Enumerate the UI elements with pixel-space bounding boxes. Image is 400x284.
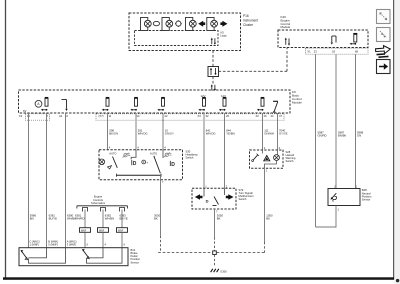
svg-text:Module: Module bbox=[292, 100, 302, 104]
svg-text:BK/GN: BK/GN bbox=[109, 132, 118, 136]
BCM internal switch bbox=[273, 101, 278, 112]
wire BCM to headlamp switch 3 bbox=[162, 113, 164, 150]
inline connector MNF 1 bbox=[80, 228, 91, 233]
wire connector 2 to BPPS bbox=[102, 232, 104, 247]
indicator lamp 3 bbox=[186, 18, 197, 31]
svg-text:Sensor: Sensor bbox=[362, 198, 371, 202]
BCM pin 22 bbox=[157, 98, 165, 111]
wire BCM to turn signal switch 1 bbox=[203, 113, 205, 188]
fog lamp icon bbox=[153, 21, 159, 25]
svg-text:GY/YE: GY/YE bbox=[279, 132, 288, 136]
BCM pin 32 bbox=[198, 98, 206, 111]
wire BCM to headlamp switch 2 bbox=[135, 113, 137, 150]
svg-text:WH/OG: WH/OG bbox=[138, 132, 148, 136]
cluster I/O logic inner box bbox=[135, 31, 219, 46]
BCM serial data symbol bbox=[211, 84, 216, 91]
right page border bbox=[393, 0, 395, 280]
svg-text:Switch: Switch bbox=[186, 156, 194, 160]
svg-text:GN/GY: GN/GY bbox=[165, 132, 174, 136]
wire BCM to hazard switch 2 bbox=[277, 113, 279, 150]
inline connector MNF 2 bbox=[98, 228, 109, 233]
wire label 598 BK/GN bbox=[109, 129, 118, 136]
serial data wire cluster to connector bbox=[212, 51, 214, 67]
ground bus wire bbox=[158, 252, 265, 254]
wire label 5987 BN/BK bbox=[338, 131, 347, 138]
svg-text:GN/RD: GN/RD bbox=[318, 134, 327, 138]
ECM pin symbol bbox=[350, 34, 358, 45]
instrument cluster P16 box bbox=[129, 13, 241, 51]
BPPS potentiometer 1 bbox=[21, 250, 28, 260]
headlamp switch lever 2 bbox=[154, 156, 161, 173]
wire bracket 3 to connector bbox=[121, 210, 123, 228]
label Engine Controls Schematics bbox=[91, 195, 106, 205]
label S79 Turn Signal Multifunction Switch bbox=[239, 188, 255, 201]
BCM pin 7 bbox=[41, 98, 49, 111]
wire label 6382 WH/BN bbox=[105, 214, 114, 221]
BCM pin 26 bbox=[219, 98, 227, 111]
svg-text:18: 18 bbox=[332, 50, 335, 54]
BCM connector dotted outline right bbox=[96, 114, 284, 120]
bracket hook 1 bbox=[83, 208, 88, 212]
wire label 5986 BN bbox=[30, 214, 37, 221]
svg-text:YE/BN: YE/BN bbox=[226, 132, 234, 136]
left page border bbox=[5, 0, 7, 278]
wire label 844 YE/BN bbox=[226, 129, 234, 136]
right margin strip bbox=[394, 0, 400, 284]
right turn arrow icon bbox=[220, 21, 227, 27]
wire label 6380 WH/BK bbox=[67, 214, 76, 221]
svg-text:Logic: Logic bbox=[220, 33, 227, 37]
svg-text:16: 16 bbox=[264, 114, 267, 118]
svg-text:(X7): (X7) bbox=[99, 114, 104, 118]
ECM connector dotted outline bbox=[306, 48, 369, 54]
svg-text:68: 68 bbox=[355, 50, 358, 54]
svg-text:BN/BK: BN/BK bbox=[338, 134, 347, 138]
svg-text:X1: X1 bbox=[307, 50, 311, 54]
svg-text:P16: P16 bbox=[243, 14, 249, 18]
wire label 6381 BU/YE bbox=[49, 214, 58, 221]
wire BCM to BPPS 2 bbox=[46, 113, 48, 248]
ambient light sensor icon bbox=[142, 160, 148, 164]
svg-text:1 (MNF): 1 (MNF) bbox=[30, 243, 40, 247]
svg-text:BK: BK bbox=[266, 217, 270, 221]
svg-text:Switch: Switch bbox=[239, 197, 247, 201]
serial data wire connector to ECM bbox=[219, 48, 288, 72]
headlamp switch pin numbers top bbox=[109, 146, 167, 150]
left turn arrow in switch bbox=[195, 194, 203, 200]
wire NPS return loop bbox=[316, 206, 337, 228]
toolbar button zoom-window bbox=[377, 28, 391, 42]
BPPS internal wiring 1 bbox=[29, 248, 66, 264]
switch common bar bbox=[117, 174, 162, 177]
svg-text:X2: X2 bbox=[256, 114, 260, 118]
wire label 5987 GN/RD bbox=[318, 131, 327, 138]
svg-text:BK: BK bbox=[154, 217, 158, 221]
hazard lamp symbol bbox=[274, 155, 280, 161]
svg-text:BK/YE: BK/YE bbox=[120, 217, 128, 221]
wire ECM pin 68 bbox=[355, 54, 357, 188]
label I/O Logic bbox=[220, 30, 227, 37]
wire label 7040 GY/YE bbox=[279, 129, 288, 136]
svg-text:Sensor: Sensor bbox=[131, 260, 140, 264]
left turn arrow icon bbox=[198, 21, 205, 27]
svg-text:5 (MNF): 5 (MNF) bbox=[48, 243, 58, 247]
bracket hook 2 bbox=[101, 208, 106, 212]
svg-text:WH/BN: WH/BN bbox=[105, 217, 114, 221]
svg-text:GN/WH: GN/WH bbox=[264, 132, 274, 136]
right turn arrow in switch bbox=[226, 194, 234, 200]
brake pedal position sensor B14 box bbox=[19, 248, 128, 266]
label S30 Headlamp Switch bbox=[186, 150, 199, 160]
bracket hook 3 bbox=[120, 208, 125, 212]
ground G306 bbox=[211, 269, 228, 274]
toolbar button zoom-extents bbox=[377, 10, 391, 24]
svg-text:BN: BN bbox=[30, 217, 34, 221]
inline connector MNF 3 bbox=[117, 228, 128, 233]
hazard internal wires bbox=[263, 150, 278, 168]
svg-text:Instrument: Instrument bbox=[243, 19, 258, 23]
NPS sensor symbol bbox=[331, 193, 337, 202]
hazard warning switch S28 box bbox=[250, 150, 284, 168]
hazard triangle symbol bbox=[263, 155, 271, 162]
turn signal stalk contact bbox=[204, 188, 219, 205]
wire bracket 2 to connector bbox=[102, 210, 104, 228]
svg-text:D: D bbox=[206, 198, 209, 203]
wire turn signal switch to splice bbox=[214, 209, 216, 251]
svg-text:MNF: MNF bbox=[81, 229, 87, 232]
park lamp symbol bbox=[99, 159, 105, 165]
svg-text:D: D bbox=[171, 162, 175, 168]
headlamp switch lever 1 bbox=[108, 157, 118, 170]
BCM pin 14 bbox=[130, 98, 138, 111]
lamps-off icon 2 bbox=[164, 152, 172, 157]
toolbar button next-page bbox=[377, 60, 391, 74]
wire hazard switch to ground bus bbox=[264, 168, 266, 252]
neutral position sensor B48 box bbox=[328, 189, 360, 206]
svg-text:AUTO: AUTO bbox=[109, 151, 116, 155]
wire BCM to BPPS 1 bbox=[28, 113, 30, 248]
svg-text:23: 23 bbox=[314, 50, 317, 54]
svg-text:WH/OG: WH/OG bbox=[206, 132, 216, 136]
svg-text:3 (MNF): 3 (MNF) bbox=[67, 243, 77, 247]
svg-text:44: 44 bbox=[271, 114, 274, 118]
wire label 1050 BK bbox=[266, 214, 273, 221]
wire connector 1 to BPPS bbox=[84, 232, 86, 247]
wire connector 3 to BPPS bbox=[121, 232, 123, 247]
wire BCM to turn signal switch 2 bbox=[224, 113, 226, 188]
wire splice to ground bbox=[214, 255, 216, 268]
wire label 6383 BK/YE bbox=[120, 214, 128, 221]
BCM pin 16 bbox=[257, 98, 265, 111]
label B48 Neutral Position Sensor bbox=[362, 188, 372, 201]
ECM pin numbers bbox=[307, 50, 358, 54]
turn signal multifunction switch S79 box bbox=[192, 188, 236, 209]
wire label 6381 WH/RD bbox=[75, 214, 84, 221]
svg-text:AUTO: AUTO bbox=[150, 151, 157, 155]
bottom page border bbox=[3, 277, 394, 280]
low beam icon 1 bbox=[132, 160, 137, 167]
BCM K9 box bbox=[19, 90, 291, 113]
wire jog to low beam icon bbox=[131, 150, 136, 160]
BCM output pin A4 bbox=[62, 100, 68, 112]
wire ECM pin 18 bbox=[335, 54, 337, 188]
svg-text:Switch: Switch bbox=[286, 159, 294, 163]
BPPS internal wiring 2 bbox=[87, 248, 123, 264]
wire BCM to BPPS 3 bbox=[65, 113, 67, 248]
BCM pin 11 bbox=[102, 98, 110, 111]
indicator lamp 4 bbox=[207, 18, 218, 31]
wire label 5988 GN bbox=[357, 131, 364, 138]
svg-text:WH/RD: WH/RD bbox=[75, 217, 84, 221]
ECM serial data symbol bbox=[285, 38, 290, 46]
wire stub to low beam icon 2 bbox=[162, 150, 164, 158]
svg-text:A4: A4 bbox=[59, 114, 63, 118]
svg-text:22: 22 bbox=[165, 114, 168, 118]
svg-text:Cluster: Cluster bbox=[243, 23, 254, 27]
splice S208 bbox=[213, 251, 217, 255]
svg-text:BU/YE: BU/YE bbox=[49, 217, 58, 221]
wire BCM to hazard switch 1 bbox=[262, 113, 264, 150]
wire ECM pin 23 bbox=[315, 54, 317, 227]
off-page reference bracket bbox=[77, 206, 128, 209]
wire headlamp switch to ground bus bbox=[160, 175, 162, 252]
label P16 Instrument Cluster bbox=[243, 14, 258, 27]
lamps-off icon 1 bbox=[123, 153, 131, 158]
BPPS pin labels bbox=[30, 239, 126, 246]
low beam icon 2 bbox=[170, 161, 175, 168]
svg-text:14: 14 bbox=[137, 114, 140, 118]
headlamp switch S30 box bbox=[99, 150, 183, 180]
serial data wire connector to BCM bbox=[212, 77, 214, 86]
BCM connector dotted outline left bbox=[26, 114, 50, 120]
svg-text:47: 47 bbox=[279, 114, 282, 118]
hazard switch lever bbox=[252, 154, 259, 162]
corner mark bbox=[396, 279, 399, 282]
BCM pin numbers bbox=[19, 114, 283, 118]
wire label 3050 BK left bbox=[154, 214, 161, 221]
svg-text:32: 32 bbox=[206, 114, 209, 118]
svg-text:D: D bbox=[133, 161, 137, 167]
wire label 591 WH/OG bbox=[138, 129, 148, 136]
svg-text:MNF: MNF bbox=[118, 229, 124, 232]
ECM K20 box bbox=[278, 30, 368, 48]
label B14 Brake Pedal Position Sensor bbox=[131, 248, 141, 264]
wire stub turn signal 2 bbox=[224, 188, 226, 195]
wire label 841 WH/OG bbox=[206, 129, 216, 136]
svg-text:GN: GN bbox=[357, 134, 361, 138]
gear indicator icon bbox=[175, 20, 182, 27]
wire label 3050 BK right bbox=[217, 214, 224, 221]
ECM output driver symbol bbox=[331, 36, 336, 45]
label S28 Hazard Warning Switch bbox=[286, 150, 296, 163]
inline connector X85 bbox=[208, 67, 219, 77]
cluster serial data symbol bbox=[211, 38, 216, 45]
svg-text:Schematics: Schematics bbox=[91, 201, 106, 205]
svg-text:BK: BK bbox=[217, 217, 221, 221]
NPS pin numbers top bbox=[334, 185, 358, 189]
svg-text:MNF: MNF bbox=[99, 229, 105, 232]
label K9 Body Control Module bbox=[292, 90, 302, 104]
wire label 10 GN/GY bbox=[165, 129, 174, 136]
hazard switch pin numbers bbox=[264, 146, 281, 150]
wire label 111 GN/WH bbox=[264, 129, 274, 136]
wire BCM to headlamp switch 1 bbox=[107, 113, 109, 150]
svg-text:26: 26 bbox=[226, 114, 229, 118]
BCM sensor circle bbox=[35, 100, 42, 107]
indicator lamp 2 bbox=[162, 18, 173, 31]
svg-text:Module: Module bbox=[281, 25, 291, 29]
svg-text:X3: X3 bbox=[198, 114, 202, 118]
BPPS potentiometer 2 bbox=[82, 249, 89, 259]
svg-text:6V: 6V bbox=[23, 109, 27, 113]
svg-text:X3: X3 bbox=[19, 114, 23, 118]
toolbar pan arrow icon bbox=[376, 46, 391, 58]
svg-text:G306: G306 bbox=[220, 269, 227, 273]
wire bracket 1 to connector bbox=[84, 210, 86, 228]
turn signal switch pin numbers bbox=[205, 184, 228, 188]
label K20 Engine Control Module bbox=[281, 15, 291, 29]
indicator lamp 1 bbox=[141, 18, 152, 31]
